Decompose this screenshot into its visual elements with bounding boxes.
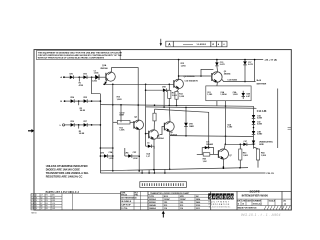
svg-text:0-8B0: 0-8B0	[257, 134, 262, 136]
transistor Q7	[218, 149, 231, 159]
svg-text:1,2K0: 1,2K0	[207, 94, 212, 96]
svg-text:CR6: CR6	[125, 152, 129, 154]
svg-text:B: B	[60, 101, 62, 103]
diode CR3	[94, 70, 106, 80]
svg-text:C14 1N4148 R1: C14 1N4148 R1	[185, 79, 199, 82]
svg-text:1-0-NOM-2: 1-0-NOM-2	[197, 44, 206, 46]
svg-text:+84 + 0V (A): +84 + 0V (A)	[264, 59, 277, 62]
svg-text:1,21K: 1,21K	[109, 158, 115, 160]
svg-text:Q1A: Q1A	[102, 64, 107, 67]
svg-text:3311: 3311	[196, 208, 200, 210]
svg-text:1,00K: 1,00K	[119, 130, 125, 132]
wire Q1 emitter row E	[103, 83, 173, 85]
svg-text:SM D: SM D	[31, 213, 37, 215]
title text	[237, 189, 291, 210]
svg-text:4.7: 4.7	[41, 195, 43, 197]
svg-text:1N4004: 1N4004	[149, 207, 157, 210]
wire row L to rail	[91, 124, 101, 126]
svg-text:DIODES ARE 1N4148 CODE: DIODES ARE 1N4148 CODE	[46, 167, 80, 171]
svg-text:A: A	[168, 43, 171, 47]
resistor R16 on rail x169	[168, 84, 177, 106]
diode CR10 Q3 collector to bus	[215, 60, 224, 72]
svg-text:0-888: 0-888	[257, 118, 262, 120]
bottom bus A	[100, 167, 248, 171]
resistor R15 Q2 collector	[179, 60, 186, 80]
rail from row E at x145.6	[145, 84, 147, 147]
svg-text:R1: R1	[46, 195, 48, 197]
wire Q5 emitter down	[153, 139, 155, 171]
svg-text:SCALE: SCALE	[269, 199, 276, 202]
svg-text:B+B: B+B	[257, 80, 262, 82]
logo SAGOMO	[208, 193, 234, 208]
svg-text:CAP IN UF: CAP IN UF	[121, 204, 131, 207]
svg-text:519: 519	[164, 205, 167, 207]
svg-text:P/N 10: P/N 10	[121, 194, 127, 196]
svg-text:C14 1N400: C14 1N400	[227, 79, 237, 82]
left border pointer arrow	[28, 129, 34, 133]
node L input terminal	[60, 124, 71, 127]
svg-text:1,0K0: 1,0K0	[243, 155, 248, 157]
svg-text:C1: C1	[32, 195, 34, 197]
conversion chart	[148, 192, 211, 210]
svg-text:C5: C5	[32, 206, 34, 208]
wire Q6 emitter to bus3	[169, 131, 171, 136]
svg-text:0-888: 0-888	[257, 124, 262, 126]
svg-text:Q7: Q7	[229, 155, 232, 157]
svg-text:1,0K0: 1,0K0	[117, 99, 122, 101]
transistor Q1	[100, 64, 115, 85]
emitter arrows	[105, 80, 224, 160]
wire Q7 collector	[224, 144, 225, 149]
svg-text:CR4: CR4	[70, 96, 75, 99]
rail from Q1 emitter down	[112, 84, 114, 171]
svg-text:0: 0	[231, 194, 234, 200]
wire node A to input rail	[92, 77, 101, 94]
svg-text:NUMBER: NUMBER	[253, 200, 262, 202]
node after CR4, resistor R2 drop	[78, 100, 86, 112]
node after CR6, resistor R3 drop	[78, 124, 85, 135]
svg-text:IN OHMS K: IN OHMS K	[121, 201, 132, 203]
vertical feed wire right	[277, 89, 279, 149]
resistor R63	[239, 144, 248, 167]
drawing frame border	[34, 50, 291, 210]
svg-text:MADE FOR SERVICE: MADE FOR SERVICE	[238, 206, 258, 209]
wire Q6 collector to bus2b	[168, 107, 171, 122]
svg-text:CR7: CR7	[83, 121, 87, 123]
diode CR7	[83, 121, 91, 127]
resistor R60 with diode loop at Q7 base	[197, 142, 218, 163]
svg-text:SK: SK	[196, 196, 199, 198]
wire box to R collector chain	[225, 101, 233, 145]
svg-text:INTENSIFIER W000: INTENSIFIER W000	[242, 193, 269, 197]
svg-text:DATE: DATE	[247, 199, 253, 202]
svg-text:EMITTER: EMITTER	[257, 83, 267, 85]
svg-text:R4: R4	[46, 203, 48, 205]
svg-text:GRID: GRID	[259, 144, 264, 146]
svg-text:0-670: 0-670	[248, 64, 253, 66]
svg-text:CR6: CR6	[70, 121, 74, 123]
diode CR9 vertical	[184, 107, 194, 135]
svg-text:R3: R3	[46, 200, 48, 202]
svg-text:3466: 3466	[196, 201, 200, 204]
wire Q3 emitter box to bus	[216, 101, 218, 106]
transistor Q6	[160, 122, 178, 137]
resistor R14 Q2 emitter	[175, 89, 185, 106]
svg-text:C4: C4	[32, 203, 34, 205]
svg-text:2N3984: 2N3984	[224, 72, 232, 75]
svg-text:CR5: CR5	[100, 152, 104, 154]
svg-text:116: 116	[164, 208, 167, 210]
svg-text:WITHOUT PRIOR NOTICE OF LISTED: WITHOUT PRIOR NOTICE OF LISTED ELECTRONI…	[38, 58, 105, 60]
connector J1	[140, 182, 187, 188]
wire Q2 collector to Q3 base	[178, 69, 214, 82]
svg-text:4: 4	[36, 208, 37, 210]
svg-text:A: A	[60, 76, 62, 79]
svg-text:R: R	[284, 202, 286, 206]
diode CR6	[70, 121, 79, 127]
svg-text:1/4.8K: 1/4.8K	[80, 109, 86, 112]
right border tick label	[288, 128, 291, 130]
svg-text:2N3906: 2N3906	[100, 68, 108, 70]
svg-text:67: 67	[41, 203, 43, 205]
svg-text:1: 1	[36, 195, 37, 197]
svg-text:5: 5	[227, 194, 230, 200]
svg-text:L: L	[60, 125, 62, 127]
diode CR20 cell right	[146, 142, 155, 157]
svg-text:C67: C67	[244, 141, 247, 143]
svg-text:10000-A-1: 10000-A-1	[253, 203, 262, 206]
svg-text:Q4: Q4	[134, 115, 137, 118]
wire W3 Q5 collector to Q7 base area	[155, 109, 209, 148]
diode CR11 from bus to grid line	[243, 60, 253, 83]
svg-text:1,0K0: 1,0K0	[261, 155, 266, 157]
svg-text:0-670: 0-670	[220, 64, 225, 66]
svg-text:1,00K: 1,00K	[179, 96, 185, 98]
svg-text:UNLESS OTHERWISE INDICATED:: UNLESS OTHERWISE INDICATED:	[46, 164, 89, 168]
svg-text:4: 4	[223, 43, 225, 46]
svg-text:CR1: CR1	[69, 73, 73, 75]
wire Q1 collector to feedback line	[112, 68, 139, 121]
svg-text:C3: C3	[32, 200, 34, 202]
svg-text:159: 159	[180, 202, 183, 204]
component box U1	[206, 82, 251, 101]
svg-text:116: 116	[180, 208, 183, 210]
wire row B to rail	[91, 100, 101, 102]
wire bus3 to bottom bus at x170	[169, 136, 171, 170]
svg-text:C5A: C5A	[109, 151, 113, 154]
svg-text:1N34A5: 1N34A5	[206, 143, 213, 146]
svg-text:10 TOL: 10 TOL	[121, 208, 128, 210]
resistor R21 Q5 collector	[153, 109, 156, 130]
node B1 junction	[91, 76, 97, 82]
svg-text:D: D	[238, 204, 240, 206]
svg-text:C2: C2	[32, 197, 34, 199]
svg-text:C12 4-88: C12 4-88	[257, 110, 267, 113]
diode CR17 to chain	[225, 141, 253, 146]
svg-text:CW -5V: CW -5V	[266, 173, 274, 175]
capacitor C2 with resistor to Q4 base	[113, 104, 134, 132]
svg-text:1,0K: 1,0K	[203, 161, 208, 163]
svg-text:1/4.8K: 1/4.8K	[79, 132, 85, 135]
svg-text:123AP: 123AP	[180, 198, 187, 201]
svg-text:12: 12	[41, 208, 43, 210]
svg-text:4: 4	[36, 200, 37, 202]
diode CR4	[70, 96, 79, 103]
bus +84V	[120, 59, 277, 62]
node after CR1, drop to resistor R1	[78, 76, 83, 86]
middle bus 2b	[146, 106, 267, 113]
svg-text:88: 88	[41, 206, 43, 208]
short link rail bus4	[100, 147, 112, 149]
svg-text:123AP: 123AP	[164, 198, 171, 201]
svg-text:1,0K0: 1,0K0	[227, 127, 232, 129]
svg-text:2N3904: 2N3904	[157, 137, 165, 140]
diode CR19 cell	[125, 148, 140, 160]
transistor Q2	[174, 75, 195, 89]
svg-text:1,2K0: 1,2K0	[181, 65, 186, 67]
grid output wire	[222, 79, 267, 86]
svg-text:CR8: CR8	[162, 87, 166, 89]
svg-text:NTE: NTE	[180, 196, 185, 198]
diode CR8 branch	[146, 87, 170, 92]
svg-text:TYPE: TYPE	[149, 196, 155, 198]
svg-text:10: 10	[242, 204, 244, 206]
svg-text:C5F: C5F	[133, 152, 137, 154]
transistor Q5	[146, 130, 165, 140]
svg-text:1: 1	[36, 203, 37, 205]
svg-text:W: W	[212, 44, 214, 46]
note box top-left	[37, 50, 123, 59]
svg-text:2: 2	[36, 206, 37, 208]
svg-text:8: 8	[36, 197, 37, 199]
svg-text:2N3904: 2N3904	[149, 198, 157, 201]
svg-text:A: A	[218, 43, 220, 46]
diode CR18 cell	[100, 151, 115, 160]
parts list table	[31, 194, 121, 211]
svg-text:10: 10	[41, 200, 43, 202]
zone marker 1 bottom	[162, 211, 165, 214]
resistor R10 label	[117, 97, 122, 101]
svg-text:1-806: 1-806	[94, 73, 99, 75]
diode CR5	[83, 97, 91, 103]
wire Q4 emitter down	[138, 129, 140, 171]
svg-text:R2: R2	[46, 197, 48, 199]
svg-text:1-806: 1-806	[92, 80, 97, 82]
svg-text:RESISTORS ARE 1/4W,5% CC: RESISTORS ARE 1/4W,5% CC	[46, 174, 83, 178]
bottom bus B with -5V label	[100, 173, 274, 175]
branch from diode node down to bus2b	[163, 90, 165, 107]
svg-text:159: 159	[164, 202, 167, 204]
svg-text:1N4148: 1N4148	[149, 204, 156, 207]
svg-text:DK RESISTANCE: DK RESISTANCE	[121, 197, 137, 200]
svg-text:3100: 3100	[196, 205, 200, 207]
svg-text:519: 519	[180, 205, 183, 207]
drawing info cells	[121, 191, 148, 210]
diode chain CR13-CR16	[252, 106, 273, 149]
input rail vertical	[100, 94, 102, 173]
middle bus 2a	[100, 104, 253, 107]
junction links busA-busB	[141, 170, 165, 174]
svg-text:0: 0	[220, 194, 223, 200]
svg-text:1,2K0: 1,2K0	[233, 94, 238, 96]
svg-text:CR2: CR2	[83, 73, 87, 75]
svg-text:2N3906: 2N3906	[149, 202, 156, 204]
svg-text:ECG: ECG	[164, 196, 169, 198]
svg-text:CR5: CR5	[83, 97, 87, 99]
svg-text:R5: R5	[46, 206, 48, 208]
zone marker arrow top	[160, 39, 162, 46]
svg-text:DR: DR	[237, 200, 240, 202]
wire Q7 emitter to bottom bus	[223, 159, 225, 168]
svg-text:WG-10.1 - t - 1 . A904: WG-10.1 - t - 1 . A904	[241, 213, 281, 217]
title block outline	[121, 191, 292, 210]
svg-text:R6: R6	[46, 208, 48, 210]
svg-text:680R: 680R	[119, 115, 124, 117]
svg-text:TRANSISTORS ARE 2N3904-A SEL: TRANSISTORS ARE 2N3904-A SEL	[46, 171, 89, 175]
transistor Q4	[134, 115, 144, 129]
node A input terminal	[60, 76, 69, 79]
svg-text:C6: C6	[32, 208, 34, 210]
svg-text:C5: C5	[147, 142, 149, 144]
resistor R64	[254, 147, 267, 168]
svg-text:3: 3	[224, 194, 227, 200]
svg-text:2,0K0: 2,0K0	[172, 95, 177, 97]
svg-text:4-87: 4-87	[246, 95, 250, 98]
wire bus to emitter line x254.6	[254, 59, 256, 82]
svg-text:1,2?: 1,2?	[146, 156, 151, 158]
svg-text:1N4R: 1N4R	[189, 125, 194, 128]
svg-text:82: 82	[41, 197, 43, 199]
bus 3	[170, 135, 254, 137]
diode CR1	[69, 73, 79, 79]
svg-text:1,20K: 1,20K	[133, 158, 139, 160]
svg-text:1,2K04: 1,2K04	[220, 93, 227, 96]
revision block top	[166, 41, 227, 47]
node B input terminal	[60, 100, 70, 103]
svg-text:CIRCUITS REPRODUCED IN WHOLE A: CIRCUITS REPRODUCED IN WHOLE ARE SHOWN B…	[38, 54, 122, 57]
diode CR12 in box	[242, 91, 251, 99]
svg-text:470K: 470K	[79, 84, 84, 87]
transistor Q3	[212, 71, 232, 82]
diode CR2	[83, 73, 92, 79]
svg-text:CORPORATION: CORPORATION	[209, 203, 230, 206]
note text block	[46, 164, 89, 179]
